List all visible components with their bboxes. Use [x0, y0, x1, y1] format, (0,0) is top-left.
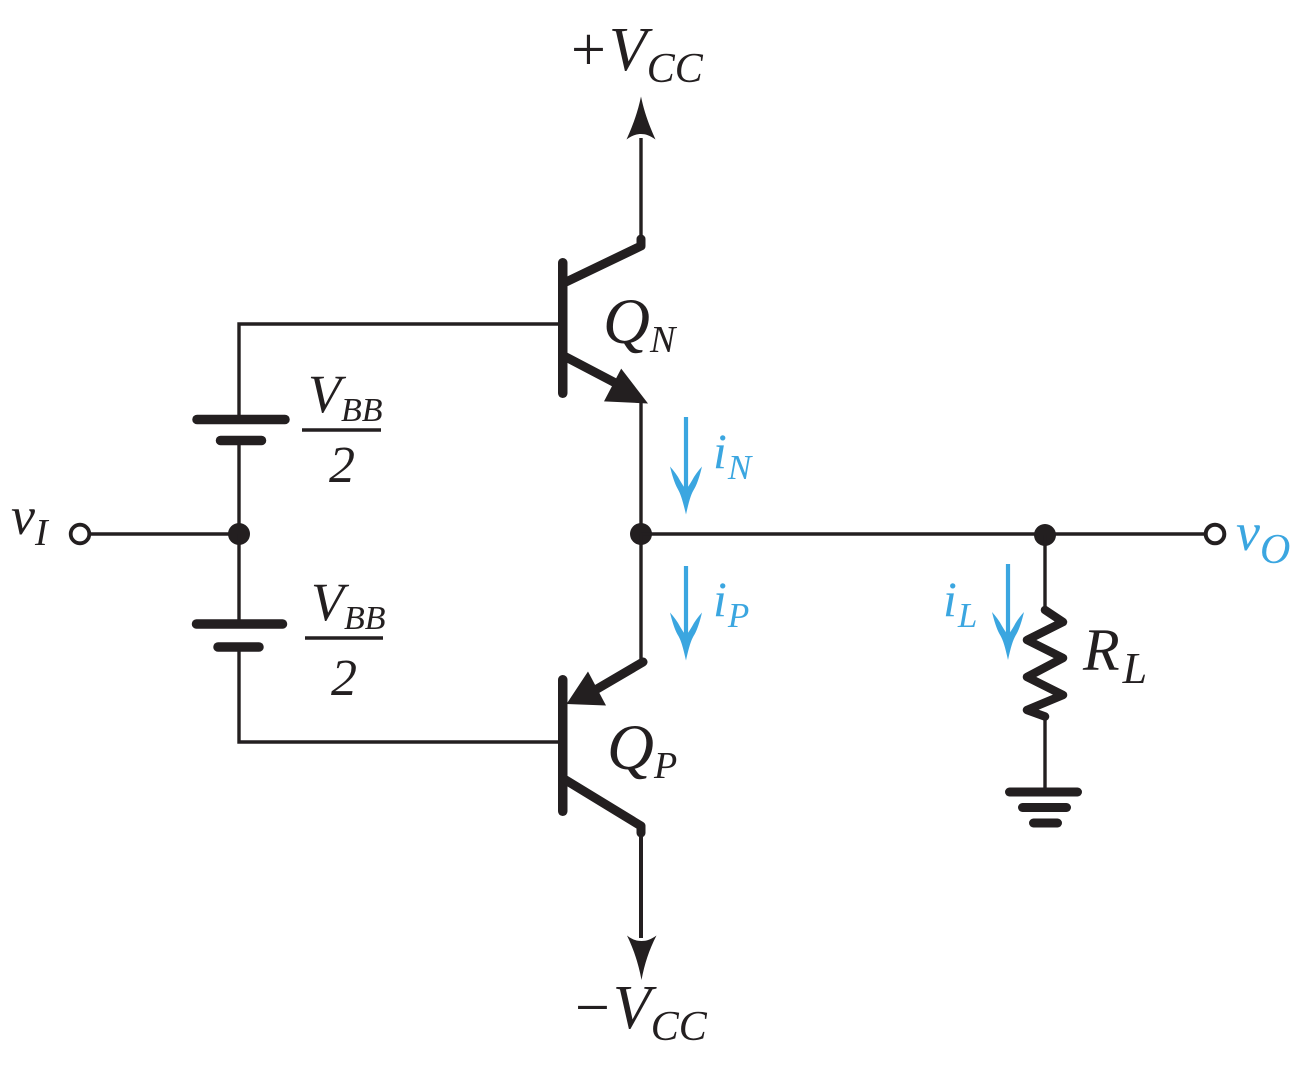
output terminal vO — [1206, 525, 1225, 544]
resistor RL — [1027, 610, 1063, 717]
ground — [1010, 792, 1078, 823]
label VBB/2 upper — [302, 364, 383, 494]
label VBB/2 lower — [305, 572, 386, 707]
current arrow iL — [992, 564, 1024, 660]
battery B2 bottom plate — [218, 642, 259, 652]
svg-text:2: 2 — [329, 437, 355, 494]
transistor QN base bar — [558, 258, 568, 398]
current arrow iN — [670, 417, 702, 515]
transistor QN emitter arrowhead — [604, 369, 648, 404]
supply arrow +VCC shaft — [639, 138, 642, 245]
wire QP collector to -VCC — [639, 830, 643, 938]
svg-text:2: 2 — [331, 650, 357, 707]
battery B2 top plate — [197, 619, 283, 629]
wire output node to QP emitter — [639, 534, 642, 663]
supply arrow +VCC head — [627, 97, 656, 140]
wire QN emitter to output node — [639, 401, 642, 534]
transistor QP base bar — [558, 675, 568, 816]
battery B1 bottom plate — [221, 436, 262, 446]
input terminal vI — [71, 525, 90, 544]
battery B1 top plate — [197, 415, 285, 425]
transistor QN emitter lead — [564, 356, 625, 388]
wire resistor to ground — [1043, 716, 1046, 792]
wire load node to resistor — [1043, 535, 1046, 611]
wire battery B1 to input node — [237, 443, 240, 534]
transistor QN collector lead — [566, 239, 641, 282]
node output junction dot — [630, 523, 652, 545]
current arrow iP — [670, 566, 702, 661]
transistor QP emitter arrowhead — [567, 672, 607, 706]
node input junction dot — [228, 523, 250, 545]
transistor QP emitter lead — [597, 662, 643, 689]
wire input node to battery B2 — [237, 534, 240, 621]
wire base QP from bias chain — [239, 649, 558, 742]
wire input — [90, 532, 239, 535]
wire base QN from bias chain — [239, 324, 558, 417]
supply arrow -VCC head — [627, 936, 657, 981]
node load junction dot — [1034, 524, 1056, 546]
transistor QP collector lead — [564, 779, 641, 833]
wire output row — [641, 532, 1204, 535]
